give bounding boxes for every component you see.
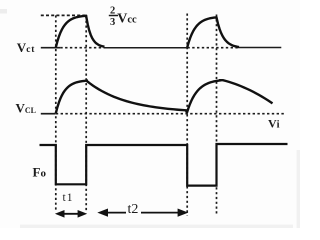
svg-text:Fo: Fo (33, 164, 47, 179)
Vct capacitor charge curve 2 (187, 17, 239, 47)
svg-text:Vcc: Vcc (117, 11, 137, 26)
t2 arrowhead left (97, 209, 108, 217)
faint scan smudge top-left (0, 9, 7, 14)
Vct axis solid mid segment (104, 47, 188, 49)
faint scan edge band right (297, 150, 300, 228)
t1 arrowhead right (78, 210, 88, 218)
Fo output waveform (40, 144, 288, 186)
VCL curve 2 (187, 80, 273, 113)
Vct axis dashed under first pulse (60, 47, 103, 49)
label 2/3 Vcc (109, 5, 137, 28)
vertical dashed line t=t0+t1 (x=86.2) (85, 16, 87, 211)
Vct capacitor charge curve 1 (56, 16, 105, 48)
vertical dashed line second pulse end (x=216.5) (216, 15, 218, 217)
Vct axis solid right segment (239, 47, 282, 49)
VCL curve 1 (56, 81, 187, 114)
t2 arrowhead right (178, 209, 189, 217)
Vct axis dashed under second pulse (187, 47, 238, 49)
faint scan edge band bottom (20, 225, 293, 228)
svg-text:Vi: Vi (268, 117, 280, 131)
vertical dashed line t=t0 (x=55.8) (55, 15, 57, 211)
Vct axis solid segment at label (41, 47, 61, 49)
t2 arrow line left part (106, 212, 126, 214)
VCL axis solid segment at label (41, 113, 56, 115)
dashed threshold line 2/3 Vcc (41, 14, 88, 16)
VCL axis dashed baseline (56, 113, 284, 115)
svg-text:t2: t2 (128, 202, 139, 217)
vertical dashed line second trigger (x=187.2) (186, 14, 188, 216)
t1 arrowhead left (55, 210, 65, 218)
svg-text:3: 3 (110, 17, 115, 28)
svg-text:t1: t1 (63, 192, 74, 204)
t2 arrow line right part (141, 212, 180, 214)
t1 interval arrow line (58, 213, 84, 215)
